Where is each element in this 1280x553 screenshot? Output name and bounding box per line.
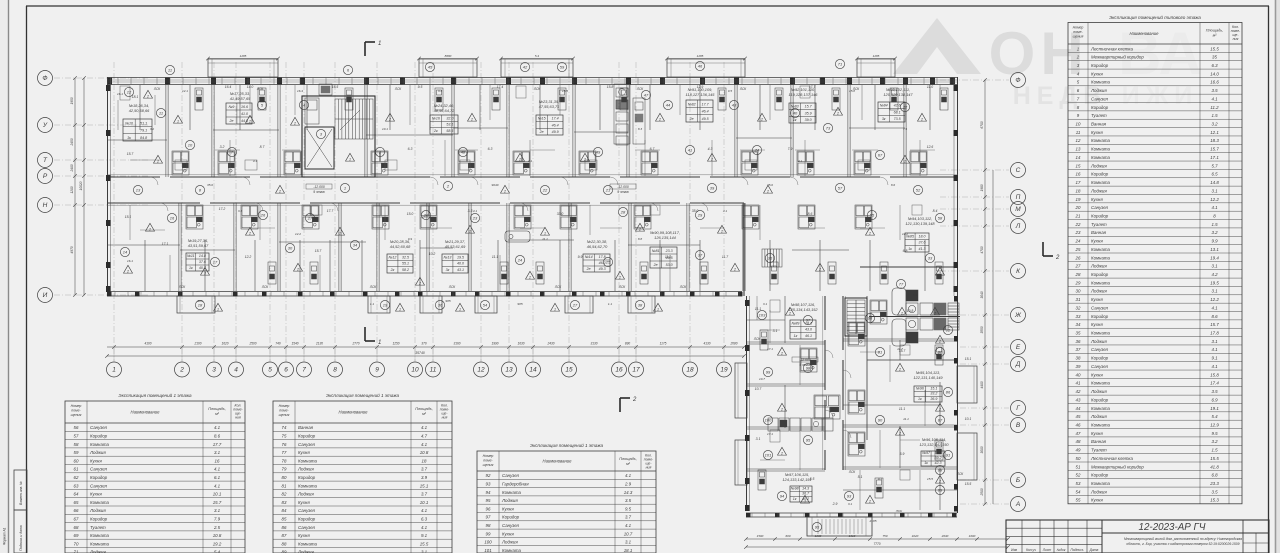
svg-text:103: 103 [759, 313, 766, 318]
svg-text:6.9: 6.9 [1211, 397, 1218, 402]
svg-text:2: 2 [338, 232, 341, 236]
bathroom fixtures [579, 151, 596, 175]
svg-text:48,56,64,72: 48,56,64,72 [434, 108, 455, 113]
svg-text:15.7: 15.7 [1210, 147, 1219, 152]
apartment wall north [165, 85, 167, 177]
axis line horizontal right [940, 225, 1009, 227]
svg-text:13: 13 [136, 188, 141, 193]
apartment wall south [568, 203, 570, 291]
svg-text:750: 750 [882, 534, 887, 538]
svg-text:Лоджия: Лоджия [297, 492, 314, 497]
svg-text:16.6: 16.6 [241, 105, 248, 109]
svg-text:2: 2 [720, 230, 723, 234]
dim line left 2 [83, 78, 85, 295]
apartment title №24,32,40, [434, 103, 455, 113]
svg-text:ЛСК: ЛСК [753, 337, 761, 341]
svg-text:9.5: 9.5 [1211, 431, 1218, 436]
axis line horizontal right [940, 208, 1009, 210]
svg-text:37.6: 37.6 [199, 260, 206, 264]
svg-text:49.3: 49.3 [599, 267, 606, 271]
svg-text:Кухня: Кухня [298, 533, 310, 538]
svg-text:38: 38 [1076, 356, 1081, 361]
room number bubble 21 [603, 185, 612, 194]
svg-text:53.1: 53.1 [446, 123, 453, 127]
svg-text:74: 74 [282, 425, 287, 430]
bathroom fixtures [742, 205, 759, 229]
svg-text:Коридор: Коридор [298, 475, 316, 480]
svg-text:7: 7 [302, 367, 306, 374]
svg-text:45: 45 [428, 65, 433, 70]
svg-text:Коридор: Коридор [90, 517, 108, 522]
svg-text:16.6: 16.6 [1210, 80, 1219, 85]
svg-text:№83: №83 [791, 105, 799, 109]
svg-text:Санузел: Санузел [90, 425, 108, 430]
svg-text:поме-: поме- [483, 459, 493, 463]
svg-text:23: 23 [1075, 230, 1081, 235]
svg-text:1: 1 [344, 186, 346, 191]
svg-text:79: 79 [282, 467, 287, 472]
svg-text:Коридор: Коридор [1091, 397, 1109, 402]
svg-text:5.4: 5.4 [1211, 414, 1218, 419]
side wall pier blocks [106, 85, 958, 511]
svg-text:15.7: 15.7 [213, 500, 222, 505]
svg-text:15.1: 15.1 [930, 386, 937, 390]
room number bubble 99 [763, 367, 772, 376]
svg-text:10.8: 10.8 [907, 309, 914, 313]
svg-text:Кухня: Кухня [1091, 498, 1103, 503]
svg-text:ЛСК: ЛСК [956, 472, 964, 476]
svg-text:97: 97 [486, 515, 491, 520]
area triangle 1 [654, 303, 663, 311]
svg-text:39.2: 39.2 [935, 456, 942, 460]
svg-text:-12.000: -12.000 [313, 185, 325, 189]
room number bubble 36 [435, 300, 444, 309]
svg-text:2: 2 [1076, 55, 1080, 60]
svg-text:81: 81 [878, 350, 882, 355]
svg-text:121,130,139,148: 121,130,139,148 [905, 221, 935, 226]
dim line bottom overall [107, 355, 744, 357]
svg-text:Площадь,: Площадь, [208, 407, 226, 411]
svg-text:80: 80 [282, 475, 287, 480]
svg-text:22: 22 [1075, 222, 1081, 227]
grid axis bubble Т [38, 153, 53, 168]
section mark 2 [1043, 242, 1053, 256]
svg-text:66: 66 [74, 508, 79, 513]
svg-text:72: 72 [903, 105, 908, 110]
apartment title №23,31,39, [539, 99, 560, 109]
svg-text:1630: 1630 [517, 342, 524, 346]
axis line horizontal right [940, 196, 1009, 198]
area triangle 2 [901, 155, 910, 163]
grid axis bubble 16 [612, 362, 627, 377]
axis line horizontal left [54, 77, 150, 79]
room number bubble 58 [935, 213, 944, 222]
svg-text:18.1: 18.1 [132, 95, 139, 99]
svg-text:2е: 2е [228, 119, 233, 123]
svg-text:28: 28 [620, 210, 626, 215]
svg-text:36: 36 [1076, 339, 1081, 344]
lower wing stair [845, 298, 867, 336]
lower wing bottom mullions [752, 513, 947, 517]
svg-text:8.4: 8.4 [933, 209, 938, 213]
corridor wall lower [107, 202, 744, 204]
room number bubble 3 [316, 129, 325, 138]
svg-text:Коридор: Коридор [1091, 356, 1109, 361]
svg-text:11.1: 11.1 [492, 255, 498, 259]
area triangle 2 [636, 223, 645, 231]
room number bubble 72 [900, 102, 909, 111]
svg-text:2: 2 [470, 118, 473, 122]
svg-text:Межквартирный коридор: Межквартирный коридор [1091, 464, 1144, 469]
svg-text:1285: 1285 [873, 54, 880, 58]
axis line vertical [235, 62, 237, 362]
apartment wall north [506, 85, 508, 177]
svg-text:51: 51 [1076, 464, 1081, 469]
svg-text:2500: 2500 [248, 342, 256, 346]
room number bubble 52 [913, 185, 922, 194]
svg-text:2: 2 [179, 367, 184, 374]
svg-text:8.6: 8.6 [214, 434, 221, 439]
room number bubble 22 [540, 185, 549, 194]
svg-text:3к: 3к [882, 117, 886, 121]
room number bubble 91 [943, 450, 952, 459]
svg-text:2е: 2е [586, 267, 591, 271]
lower wing kitchen row [768, 418, 833, 431]
room number bubble 1 [340, 183, 349, 192]
svg-text:Лестничная клетка: Лестничная клетка [1090, 46, 1133, 51]
corridor wall upper [107, 176, 958, 178]
svg-text:6.3: 6.3 [1211, 63, 1218, 68]
svg-text:Санузел: Санузел [502, 473, 520, 478]
svg-text:9.1: 9.1 [1211, 356, 1218, 361]
svg-text:Наименование: Наименование [1130, 31, 1160, 36]
svg-text:85: 85 [282, 517, 287, 522]
svg-text:15.3: 15.3 [1210, 498, 1219, 503]
svg-text:3.1: 3.1 [214, 450, 221, 455]
svg-text:13: 13 [1076, 147, 1081, 152]
svg-text:88: 88 [938, 468, 943, 473]
svg-text:90: 90 [878, 418, 883, 423]
svg-text:87: 87 [282, 533, 287, 538]
svg-text:11.1: 11.1 [903, 417, 909, 421]
svg-text:37.6: 37.6 [919, 241, 926, 245]
room number bubble 86 [943, 387, 952, 396]
svg-text:А: А [1015, 501, 1020, 508]
svg-text:Туалет: Туалет [1091, 113, 1107, 118]
svg-text:3к: 3к [127, 136, 131, 140]
svg-text:100: 100 [484, 540, 492, 545]
svg-text:44: 44 [1076, 406, 1081, 411]
main wing top wall outer [107, 77, 958, 79]
svg-text:2: 2 [388, 118, 391, 122]
svg-text:Кухня: Кухня [1091, 372, 1103, 377]
lower corridor wall right [842, 296, 844, 470]
svg-text:10.7: 10.7 [759, 377, 765, 381]
axis line vertical [334, 62, 336, 362]
apartment data box №9 [226, 103, 252, 124]
svg-text:28: 28 [1075, 272, 1081, 277]
svg-text:17.4: 17.4 [1210, 381, 1219, 386]
svg-text:96: 96 [486, 506, 491, 511]
svg-text:Наименование: Наименование [131, 410, 161, 415]
svg-text:26: 26 [1075, 255, 1081, 260]
area triangle 1 [174, 115, 183, 123]
apartment wall north [790, 85, 792, 177]
svg-text:3.1: 3.1 [756, 437, 761, 441]
bathroom fixtures [302, 205, 319, 229]
grid axis bubble Б [1011, 473, 1026, 488]
apartment data box №83 [789, 103, 816, 123]
svg-text:26: 26 [260, 213, 266, 218]
svg-text:Кухня: Кухня [502, 531, 514, 536]
svg-text:8.6: 8.6 [808, 212, 813, 216]
svg-text:15.7: 15.7 [315, 249, 322, 253]
svg-text:8.6: 8.6 [1211, 314, 1218, 319]
svg-text:40.0: 40.0 [457, 262, 464, 266]
svg-text:95: 95 [806, 438, 811, 443]
lower wing bottom wall outer [746, 512, 957, 514]
apartment wall south [742, 203, 744, 291]
dim line lower wing 1 [746, 538, 1008, 540]
svg-text:15.5: 15.5 [562, 89, 568, 93]
svg-text:щения: щения [71, 413, 82, 417]
top balcony [501, 59, 573, 77]
svg-text:Кухня: Кухня [1091, 297, 1103, 302]
apartment data box №16 [430, 115, 458, 134]
svg-text:23.3: 23.3 [665, 249, 673, 253]
svg-text:13.1: 13.1 [1210, 247, 1219, 252]
apartment title №98,107,116, [788, 302, 818, 312]
svg-text:2: 2 [248, 232, 251, 236]
svg-text:4.1: 4.1 [798, 159, 803, 163]
grid axis bubble 2 [175, 362, 190, 377]
top balcony [208, 59, 278, 77]
room number bubble 74 [752, 145, 761, 154]
svg-text:42.3: 42.3 [935, 461, 942, 465]
svg-text:Лестничная клетка: Лестничная клетка [1090, 456, 1133, 461]
svg-text:Ванная: Ванная [1091, 122, 1107, 127]
room number bubble 96 [865, 313, 874, 322]
svg-text:15.5: 15.5 [420, 541, 429, 546]
bathroom fixtures [458, 151, 475, 175]
svg-text:2185: 2185 [869, 519, 877, 523]
svg-text:Туалет: Туалет [1091, 222, 1107, 227]
area triangle 2 [931, 307, 940, 315]
main wing top wall inner [107, 84, 958, 86]
axis line vertical [618, 62, 620, 362]
apartment wall north [626, 85, 628, 177]
svg-text:47,55,63,71: 47,55,63,71 [539, 104, 560, 109]
svg-text:6.5: 6.5 [1211, 172, 1218, 177]
kitchen hatch stack [305, 84, 332, 124]
table frame [477, 451, 656, 553]
area triangle 2 [154, 155, 163, 163]
svg-text:49.5: 49.5 [702, 117, 709, 121]
svg-text:23: 23 [472, 216, 478, 221]
area triangle 2 [526, 271, 535, 279]
svg-text:9.5: 9.5 [418, 85, 423, 89]
area triangle 2 [758, 113, 767, 121]
svg-text:Дата: Дата [1089, 548, 1099, 552]
area triangle 2 [501, 185, 510, 193]
svg-text:2: 2 [583, 158, 586, 162]
svg-text:11.1: 11.1 [665, 255, 671, 259]
svg-text:95: 95 [486, 498, 491, 503]
axis line horizontal right [940, 270, 1009, 272]
svg-text:29: 29 [697, 213, 703, 218]
lower wing left wall [746, 296, 748, 511]
svg-text:47: 47 [644, 93, 649, 98]
svg-text:7.9: 7.9 [214, 517, 221, 522]
svg-text:1.5: 1.5 [1211, 448, 1218, 453]
svg-text:Комната: Комната [1091, 247, 1111, 252]
apartment wall south [468, 203, 470, 291]
dim line left 1 [74, 78, 76, 295]
svg-text:125,134,143,152: 125,134,143,152 [788, 307, 818, 312]
lower wing apt wall right side [843, 338, 957, 340]
svg-text:18: 18 [1076, 188, 1081, 193]
grid axis bubble А [1011, 497, 1026, 512]
svg-text:Лоджия: Лоджия [1090, 88, 1107, 93]
svg-text:19: 19 [720, 367, 728, 374]
svg-text:58.2: 58.2 [402, 268, 409, 272]
apartment wall north [572, 85, 574, 177]
svg-text:Санузел: Санузел [1091, 305, 1109, 310]
svg-text:щения: щения [1073, 35, 1084, 39]
svg-text:2: 2 [146, 95, 149, 99]
svg-text:2: 2 [126, 270, 129, 274]
svg-text:2: 2 [760, 118, 763, 122]
svg-text:4.1: 4.1 [723, 209, 728, 213]
svg-text:8.5: 8.5 [810, 477, 815, 481]
svg-text:Коридор: Коридор [1091, 272, 1109, 277]
svg-text:15.5: 15.5 [927, 477, 933, 481]
svg-text:46.4: 46.4 [702, 110, 709, 114]
room number bubble 2 [375, 147, 384, 156]
svg-text:5.9: 5.9 [900, 452, 905, 456]
svg-text:9 этаж: 9 этаж [617, 190, 629, 194]
svg-text:Лист: Лист [1042, 548, 1052, 552]
section mark 1 [365, 42, 375, 56]
area triangle 2 [866, 227, 875, 235]
misc room dims [117, 89, 933, 523]
svg-text:В: В [1016, 422, 1021, 429]
svg-text:78: 78 [282, 458, 287, 463]
bathroom fixtures [641, 151, 658, 175]
svg-text:6.3: 6.3 [421, 517, 428, 522]
svg-text:8680: 8680 [445, 54, 452, 58]
svg-text:щения: щения [279, 413, 290, 417]
svg-text:3.5: 3.5 [1211, 489, 1218, 494]
svg-text:2: 2 [638, 228, 641, 232]
svg-text:9: 9 [375, 367, 379, 374]
svg-text:Номер: Номер [71, 404, 82, 408]
svg-text:25: 25 [1075, 247, 1081, 252]
room number bubble 59 [557, 62, 566, 71]
room number bubble 25 [603, 257, 612, 266]
svg-text:14: 14 [1076, 155, 1081, 160]
apartment wall north [903, 85, 905, 177]
room number bubble 4 [299, 100, 308, 109]
svg-text:1250: 1250 [392, 342, 399, 346]
svg-text:Многоквартирный жилой дом, рас: Многоквартирный жилой дом, расположенный… [1124, 537, 1242, 541]
svg-text:1285: 1285 [240, 54, 247, 58]
svg-text:57: 57 [838, 186, 843, 191]
room number bubble 98 [803, 363, 812, 372]
svg-text:39: 39 [710, 186, 715, 191]
svg-text:49: 49 [596, 150, 601, 155]
room number bubble 39 [707, 183, 716, 192]
frame left [26, 6, 28, 553]
svg-text:21: 21 [605, 188, 610, 193]
axis line horizontal left [54, 204, 150, 206]
bathroom fixtures [848, 390, 865, 414]
bathroom fixtures [420, 205, 437, 229]
lower wing right wall [957, 296, 959, 513]
svg-text:46.4: 46.4 [552, 123, 559, 127]
svg-text:ЛСК: ЛСК [394, 87, 402, 91]
svg-text:3.2: 3.2 [150, 127, 155, 131]
svg-text:1.1: 1.1 [608, 302, 613, 306]
svg-text:3.7: 3.7 [421, 492, 428, 497]
area triangle 2 [936, 403, 945, 411]
svg-text:61: 61 [74, 467, 79, 472]
svg-text:Площадь,: Площадь, [619, 457, 637, 461]
room number bubble 45 [425, 62, 434, 71]
area triangle 2 [898, 307, 907, 315]
svg-text:16: 16 [170, 216, 175, 221]
svg-text:6.3: 6.3 [488, 147, 493, 151]
svg-text:33: 33 [1076, 314, 1081, 319]
svg-text:область, г. Бор, участок с кад: область, г. Бор, участок с кадастровым н… [1126, 542, 1239, 546]
apartment title №90,99,108,117, [650, 230, 680, 240]
svg-text:3.5: 3.5 [625, 498, 632, 503]
axis line vertical [689, 62, 691, 362]
svg-text:92: 92 [486, 473, 491, 478]
area triangle 2 [468, 113, 477, 121]
svg-text:Кухня: Кухня [1091, 322, 1103, 327]
svg-text:2: 2 [900, 312, 903, 316]
svg-text:67: 67 [878, 153, 883, 158]
svg-text:1.1: 1.1 [370, 302, 375, 306]
bathroom fixtures [513, 151, 530, 175]
svg-text:4970: 4970 [70, 246, 74, 253]
svg-text:15.7: 15.7 [1210, 322, 1219, 327]
grid axis bubble 9 [370, 362, 385, 377]
apartment data box №82 [686, 100, 713, 122]
section mark 2 [620, 398, 630, 412]
area triangle 2 [731, 263, 740, 271]
svg-text:ния: ния [1233, 37, 1239, 41]
svg-text:10: 10 [411, 367, 419, 374]
apartment data box №10 [123, 119, 152, 141]
svg-text:3.5: 3.5 [1211, 88, 1218, 93]
svg-text:1990: 1990 [491, 342, 498, 346]
main wing left wall [107, 77, 109, 296]
svg-text:11: 11 [1076, 130, 1081, 135]
svg-text:Комната: Комната [298, 541, 318, 546]
svg-text:Санузел: Санузел [1091, 347, 1109, 352]
svg-text:34: 34 [353, 243, 358, 248]
svg-text:41: 41 [1076, 381, 1081, 386]
door arcs [150, 177, 888, 438]
svg-text:16.1: 16.1 [127, 259, 133, 263]
svg-text:84: 84 [282, 508, 287, 513]
svg-text:17: 17 [213, 260, 218, 265]
svg-text:Ванная: Ванная [298, 425, 314, 430]
room number bubble 19 [380, 300, 389, 309]
svg-text:100: 100 [765, 418, 772, 423]
